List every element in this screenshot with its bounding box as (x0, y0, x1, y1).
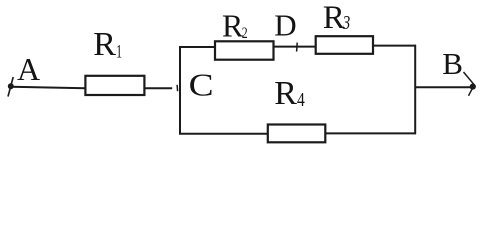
svg-text:4: 4 (297, 88, 305, 110)
svg-text:R: R (274, 75, 297, 112)
svg-text:2: 2 (242, 25, 248, 43)
resistor R4 (268, 125, 326, 143)
svg-text:R: R (323, 0, 345, 36)
resistor R1 (85, 76, 144, 95)
wire right rail (414, 45, 416, 135)
resistor R2 (215, 41, 274, 59)
terminal B (464, 72, 476, 96)
wire left rail (node C vertical) (179, 47, 181, 134)
svg-text:A: A (17, 51, 40, 87)
wire A to R1 (11, 87, 86, 88)
resistor R3 (316, 36, 373, 54)
wire bottom-left to R4 (179, 133, 268, 135)
wire right rail to terminal B (415, 86, 470, 88)
svg-text:C: C (189, 67, 214, 103)
wire R4 to right rail (325, 132, 416, 134)
junction tick at node D (296, 43, 299, 52)
svg-text:3: 3 (342, 11, 351, 34)
svg-text:B: B (442, 46, 463, 81)
label R1 (93, 26, 122, 63)
wire R3 to right rail (373, 45, 416, 47)
wire R2 to R3 (274, 46, 317, 48)
label R2 (222, 8, 248, 44)
svg-text:R: R (93, 26, 116, 63)
label R3 (323, 0, 351, 36)
svg-text:R: R (222, 8, 244, 44)
junction tick at node C (176, 85, 179, 91)
wire R1 to node C (144, 87, 172, 89)
label R4 (274, 75, 305, 112)
terminal A (8, 77, 14, 97)
wire top-left to R2 (179, 46, 216, 48)
svg-text:D: D (274, 7, 296, 42)
svg-text:1: 1 (116, 42, 122, 62)
